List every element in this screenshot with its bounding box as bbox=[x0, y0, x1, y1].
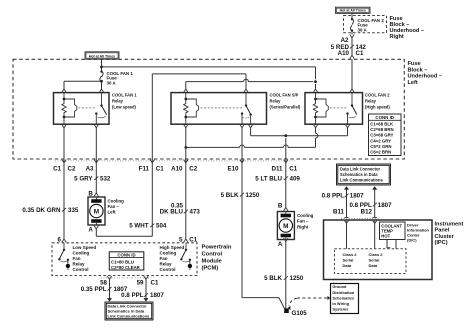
fuse block underhood left dashed box bbox=[13, 59, 404, 159]
connector C1 C2 crossing bbox=[62, 160, 66, 163]
wire A10 to PCM pin5 bbox=[185, 128, 187, 240]
wire 58 to data link bbox=[109, 279, 111, 298]
svg-text:0.35 DK GRN: 0.35 DK GRN bbox=[22, 207, 61, 214]
svg-text:Cooling: Cooling bbox=[108, 198, 125, 203]
wire coolant box to class2 bbox=[387, 240, 390, 248]
wire D11 to right fan B bbox=[285, 138, 287, 208]
svg-text:Data: Data bbox=[343, 263, 352, 268]
relay K1 pin bottom coil bbox=[62, 124, 66, 127]
svg-text:Fan –: Fan – bbox=[108, 204, 120, 209]
svg-text:C2=80 CLEAR: C2=80 CLEAR bbox=[111, 265, 141, 270]
svg-text:0.35 PPL: 0.35 PPL bbox=[81, 286, 107, 293]
svg-text:Fan: Fan bbox=[160, 256, 168, 261]
connector B right fan bbox=[284, 208, 288, 211]
relay K2 pin bottom NO bbox=[248, 124, 252, 127]
relay K2 pin bottom coil bbox=[184, 124, 188, 127]
svg-text:E10: E10 bbox=[227, 165, 239, 172]
relay K3 pin top coil bbox=[313, 89, 317, 92]
svg-text:G105: G105 bbox=[292, 310, 308, 317]
svg-text:Block –: Block – bbox=[390, 22, 410, 28]
svg-text:Cooling: Cooling bbox=[297, 213, 314, 218]
node above cool fan 1 fuse bbox=[100, 66, 103, 69]
wire relay3 coil pin drop bbox=[315, 84, 317, 89]
relay K2 pin top coil bbox=[184, 89, 188, 92]
svg-text:Distribution: Distribution bbox=[332, 290, 354, 295]
class 2 serial data dashed box bbox=[335, 249, 407, 274]
node line B at A10 wire bbox=[184, 146, 187, 149]
svg-text:30 A: 30 A bbox=[358, 28, 368, 33]
svg-text:Link Communications: Link Communications bbox=[340, 178, 383, 183]
svg-text:Low Speed: Low Speed bbox=[73, 245, 97, 250]
relay K3 pin top switch bbox=[350, 89, 354, 92]
svg-text:Relay: Relay bbox=[160, 262, 173, 267]
ground distribution dashed arrow bbox=[297, 297, 327, 299]
svg-text:504: 504 bbox=[156, 223, 167, 230]
svg-text:(IPC): (IPC) bbox=[435, 240, 448, 246]
svg-text:5 LT BLU: 5 LT BLU bbox=[255, 176, 282, 183]
svg-text:Schematics: Schematics bbox=[332, 295, 354, 300]
PCM low speed driver bbox=[63, 249, 65, 251]
svg-text:High Speed: High Speed bbox=[160, 245, 185, 250]
hop line B over E10 wire bbox=[240, 145, 245, 147]
svg-text:Serial: Serial bbox=[343, 257, 354, 262]
svg-text:Cooling: Cooling bbox=[73, 251, 90, 256]
svg-text:M: M bbox=[283, 223, 288, 230]
svg-text:Instrument: Instrument bbox=[435, 222, 464, 228]
relay K3 switch bbox=[351, 93, 353, 106]
connector A right fan bbox=[284, 238, 288, 241]
relay K1 pin top coil bbox=[62, 89, 66, 92]
svg-text:Underhood –: Underhood – bbox=[390, 28, 425, 34]
svg-text:in Wiring: in Wiring bbox=[332, 301, 349, 306]
svg-text:A: A bbox=[88, 227, 93, 234]
fuse COOL FAN 1 30A bbox=[100, 72, 103, 82]
svg-text:C1=68 BLK: C1=68 BLK bbox=[370, 122, 394, 127]
ground distribution box bbox=[331, 284, 359, 314]
svg-text:Cluster: Cluster bbox=[435, 234, 455, 240]
wire B11 inside IPC bbox=[346, 221, 348, 249]
relay K1 link dashed bbox=[79, 107, 97, 109]
pin A10 C1 connector bbox=[350, 55, 354, 58]
svg-text:473: 473 bbox=[190, 209, 201, 216]
pin A2 connector bbox=[350, 34, 354, 37]
svg-text:1250: 1250 bbox=[246, 192, 260, 199]
svg-text:Relay: Relay bbox=[365, 99, 377, 104]
svg-text:(DIC): (DIC) bbox=[407, 237, 417, 242]
svg-text:(High speed): (High speed) bbox=[365, 105, 390, 110]
svg-text:C1: C1 bbox=[53, 165, 61, 172]
svg-text:A10: A10 bbox=[171, 165, 183, 172]
svg-text:0.8 PPL: 0.8 PPL bbox=[322, 193, 345, 200]
svg-text:Systems: Systems bbox=[332, 307, 348, 312]
motor cooling fan right bbox=[277, 212, 294, 240]
svg-text:CONN ID: CONN ID bbox=[117, 253, 135, 258]
connector B left fan bbox=[94, 193, 98, 196]
svg-text:1807: 1807 bbox=[350, 193, 364, 200]
wire fused feed cool fan 1 bbox=[101, 59, 103, 71]
relay K1 pin top switch bbox=[99, 89, 103, 92]
relay K1 pin bottom switch bbox=[94, 124, 98, 127]
svg-text:A3: A3 bbox=[86, 165, 94, 172]
svg-text:Underhood –: Underhood – bbox=[408, 74, 443, 80]
hot at all times (left) box bbox=[85, 52, 119, 59]
svg-text:Module: Module bbox=[202, 259, 223, 265]
wire relay2 NO to relay3 switch (line A) bbox=[250, 128, 252, 136]
relay K3 coil bbox=[315, 93, 317, 99]
svg-text:Serial: Serial bbox=[369, 257, 380, 262]
svg-text:CONN ID: CONN ID bbox=[375, 115, 394, 120]
svg-text:F11: F11 bbox=[139, 165, 150, 172]
fuse COOL FAN 2 30A bbox=[350, 19, 353, 30]
svg-text:C4=2 GRY: C4=2 GRY bbox=[370, 138, 391, 143]
node coil feed to relay 3 bbox=[314, 80, 317, 83]
svg-text:(PCM): (PCM) bbox=[202, 266, 219, 272]
svg-text:A: A bbox=[278, 241, 283, 248]
svg-text:Control: Control bbox=[202, 252, 223, 258]
connector A10 C2 crossing bbox=[184, 160, 188, 163]
motor cooling fan left bbox=[88, 197, 105, 225]
relay K3 pin bottom coil bbox=[313, 124, 317, 127]
svg-text:(Low speed): (Low speed) bbox=[112, 105, 137, 110]
svg-text:B: B bbox=[88, 190, 93, 197]
svg-text:A10: A10 bbox=[338, 50, 350, 57]
svg-text:59: 59 bbox=[137, 280, 144, 287]
svg-text:Hot at All Times: Hot at All Times bbox=[340, 9, 366, 13]
svg-text:Cooling: Cooling bbox=[160, 251, 177, 256]
svg-text:C2: C2 bbox=[189, 165, 197, 172]
relay K2 link dashed bbox=[201, 107, 243, 109]
relay K3 COOL FAN 2 box bbox=[305, 93, 363, 125]
relay K1 switch bbox=[101, 93, 103, 106]
svg-text:DK BLU: DK BLU bbox=[160, 209, 184, 216]
relay K1 coil bbox=[63, 93, 65, 99]
wire B11 to data link bbox=[344, 186, 349, 189]
svg-text:C5=2 GRN: C5=2 GRN bbox=[370, 144, 391, 149]
svg-text:C2=68 BRN: C2=68 BRN bbox=[370, 127, 393, 132]
svg-text:Relay: Relay bbox=[73, 262, 86, 267]
wire right fan A to G105 bbox=[285, 241, 287, 308]
relay K2 pin bottom NC bbox=[240, 124, 244, 127]
node line A to D11 bbox=[284, 134, 287, 137]
PCM pin 58 bbox=[107, 276, 111, 279]
svg-text:B: B bbox=[278, 202, 283, 209]
svg-text:Data Link Connector: Data Link Connector bbox=[340, 167, 380, 172]
svg-text:5 GRY: 5 GRY bbox=[74, 176, 93, 183]
svg-text:Fan: Fan bbox=[73, 256, 81, 261]
svg-text:Powertrain: Powertrain bbox=[202, 245, 232, 251]
relay K2 coil bbox=[185, 93, 187, 99]
svg-text:Right: Right bbox=[390, 34, 404, 40]
svg-text:COOL FAN 1: COOL FAN 1 bbox=[112, 93, 137, 98]
wire left fan A to F11 bbox=[95, 229, 97, 237]
svg-text:Link Communications: Link Communications bbox=[108, 314, 151, 319]
svg-text:Left: Left bbox=[408, 80, 418, 86]
svg-text:335: 335 bbox=[68, 207, 79, 214]
hop relay3 coil drop over line A bbox=[315, 128, 317, 134]
wire 59 to data link bbox=[145, 279, 147, 298]
ground G105 bbox=[284, 308, 289, 313]
svg-text:Relay: Relay bbox=[112, 99, 124, 104]
svg-text:Fan –: Fan – bbox=[297, 219, 309, 224]
relay K2 COOL FAN S/P box bbox=[171, 93, 267, 125]
relay K1 COOL FAN 1 box bbox=[54, 93, 110, 125]
svg-text:Panel: Panel bbox=[435, 228, 450, 234]
svg-text:C1: C1 bbox=[289, 165, 297, 172]
wire B12 to data link bbox=[372, 186, 377, 189]
connector A3 crossing bbox=[94, 160, 98, 163]
wire coil feed bus bbox=[102, 66, 316, 68]
svg-text:Block –: Block – bbox=[408, 67, 428, 73]
svg-text:Relay: Relay bbox=[270, 99, 282, 104]
IPC pin B12 bbox=[373, 216, 377, 218]
node below cool fan 1 fuse bbox=[100, 80, 103, 83]
svg-text:B11: B11 bbox=[333, 209, 345, 216]
wire E10 to ground bbox=[241, 128, 243, 298]
svg-text:1807: 1807 bbox=[150, 292, 164, 299]
svg-text:Data: Data bbox=[369, 263, 378, 268]
svg-text:C1: C1 bbox=[189, 236, 197, 243]
PCM pin 59 C1 bbox=[144, 276, 148, 279]
wire B12 inside IPC bbox=[374, 221, 376, 249]
wire F11 to SP relay feed bbox=[152, 73, 246, 75]
relay K3 pin bottom switch bbox=[345, 124, 349, 127]
svg-text:Control: Control bbox=[160, 267, 176, 272]
fuse block underhood right dashed box bbox=[344, 16, 387, 33]
wire A2 feed bbox=[351, 13, 353, 19]
svg-text:1807: 1807 bbox=[378, 202, 392, 209]
svg-text:Class 2: Class 2 bbox=[369, 252, 384, 257]
IPC pin B11 bbox=[344, 216, 348, 218]
svg-text:Class 2: Class 2 bbox=[343, 252, 358, 257]
svg-text:Fuse: Fuse bbox=[408, 61, 421, 67]
relay K2 pin top switch bbox=[244, 89, 248, 92]
svg-text:5 BLK: 5 BLK bbox=[221, 192, 239, 199]
svg-text:30 A: 30 A bbox=[107, 81, 117, 86]
IPC box bbox=[324, 220, 433, 280]
svg-text:C1: C1 bbox=[151, 280, 159, 287]
hop relay2 feed crossing bbox=[244, 79, 249, 81]
wire relay1 coil branch bbox=[64, 80, 102, 82]
data link connector box (ipc) bbox=[337, 164, 391, 185]
svg-text:532: 532 bbox=[100, 176, 111, 183]
svg-text:409: 409 bbox=[290, 176, 301, 183]
connector D11 C1 crossing bbox=[284, 160, 288, 163]
PCM dashed box bbox=[52, 243, 197, 276]
svg-text:C1: C1 bbox=[156, 165, 164, 172]
svg-text:Right: Right bbox=[297, 224, 309, 229]
wire F11 long vertical bbox=[151, 74, 153, 236]
svg-text:6: 6 bbox=[58, 236, 62, 243]
wire coil bus to relay2 coil bbox=[186, 81, 244, 83]
hop line B over D11 wire bbox=[283, 145, 288, 147]
svg-text:Schematics in Data: Schematics in Data bbox=[340, 172, 378, 177]
svg-text:Hot at All Times: Hot at All Times bbox=[89, 54, 115, 58]
connector face dotted line PCM bottom bbox=[101, 277, 153, 279]
svg-text:M: M bbox=[94, 208, 99, 215]
conn id table fuse block bbox=[369, 114, 402, 156]
connector E10 crossing bbox=[240, 160, 244, 163]
PCM high speed driver bbox=[185, 249, 187, 251]
svg-text:Control: Control bbox=[73, 267, 89, 272]
hot at all times (right) box bbox=[336, 7, 371, 13]
conn id table PCM bbox=[109, 252, 144, 270]
svg-text:COOL FAN S/P: COOL FAN S/P bbox=[270, 93, 299, 98]
svg-text:COOL FAN 2: COOL FAN 2 bbox=[365, 93, 390, 98]
svg-text:5 WHT: 5 WHT bbox=[129, 223, 148, 230]
svg-text:0.8 PPL: 0.8 PPL bbox=[121, 292, 144, 299]
svg-text:(Series/Parallel): (Series/Parallel) bbox=[270, 105, 301, 110]
svg-text:Ground: Ground bbox=[332, 284, 347, 289]
coolant temp hot indicator bbox=[380, 222, 406, 240]
svg-text:5: 5 bbox=[179, 236, 183, 243]
relay K2 switch bbox=[245, 93, 247, 106]
svg-text:1250: 1250 bbox=[290, 275, 304, 282]
connector face dotted line B11 B12 bbox=[341, 218, 380, 220]
svg-text:B12: B12 bbox=[361, 209, 373, 216]
relay K3 link dashed bbox=[330, 107, 347, 109]
svg-text:C3=68 GRY: C3=68 GRY bbox=[370, 133, 393, 138]
svg-text:C2: C2 bbox=[68, 165, 76, 172]
connector F11 C1 crossing bbox=[150, 160, 154, 163]
svg-text:Fuse: Fuse bbox=[390, 16, 403, 22]
wire relay3 coil to A10 (line B) bbox=[315, 138, 317, 147]
svg-text:D11: D11 bbox=[271, 165, 283, 172]
svg-text:5 BLK: 5 BLK bbox=[264, 275, 282, 282]
svg-text:HOT: HOT bbox=[381, 233, 390, 238]
svg-text:Left: Left bbox=[108, 209, 117, 214]
wire relay1 switch to left fan B bbox=[95, 128, 97, 194]
svg-text:C1: C1 bbox=[356, 50, 364, 57]
connector A left fan bbox=[94, 226, 98, 229]
wire relay1 coil to PCM pin6 bbox=[63, 128, 65, 240]
data link connector box (pcm) bbox=[105, 302, 153, 320]
connector face dotted line fuse block bottom bbox=[55, 160, 296, 162]
svg-text:C1=80 BLU: C1=80 BLU bbox=[111, 260, 134, 265]
svg-text:C6=2 BRN: C6=2 BRN bbox=[370, 150, 391, 155]
